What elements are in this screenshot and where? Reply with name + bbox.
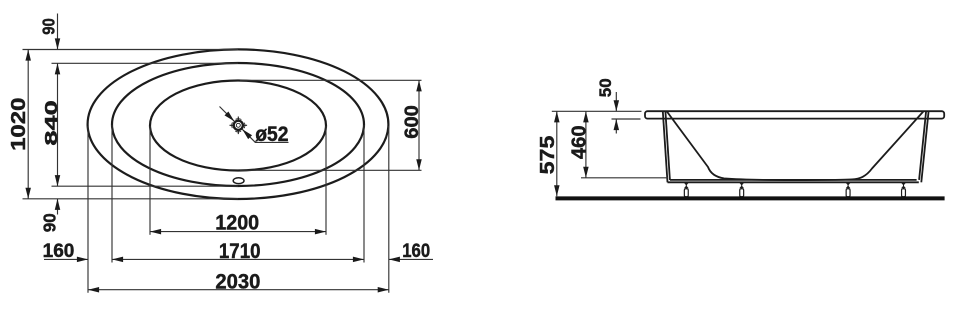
adjustable foot at x=741.7 <box>739 182 744 196</box>
left wall inner line <box>665 111 670 180</box>
dimension 160 left <box>43 241 88 262</box>
svg-text:50: 50 <box>596 78 615 97</box>
dimension 160 right <box>389 240 433 261</box>
svg-text:160: 160 <box>43 241 75 262</box>
drain symbol <box>230 117 248 135</box>
extension line outer left <box>87 126 89 293</box>
svg-text:90: 90 <box>39 18 58 35</box>
bottom plate bottom line <box>668 181 919 183</box>
extension line inner-rim bottom <box>52 185 239 187</box>
extension line bowl left <box>149 126 151 235</box>
svg-text:1200: 1200 <box>215 212 259 235</box>
dimension 600 <box>401 80 422 170</box>
svg-text:ø52: ø52 <box>255 123 288 146</box>
extension line outer right <box>388 126 390 293</box>
dimension 90 top <box>39 14 58 50</box>
right wall outer line <box>921 111 928 182</box>
extension line outer-ellipse top <box>23 49 239 51</box>
adjustable foot at x=903.5 <box>901 182 906 196</box>
svg-text:460: 460 <box>568 125 590 159</box>
right wall inner line <box>919 111 926 180</box>
extension line rim top (side view) <box>552 110 642 112</box>
dimension 460 <box>568 111 590 178</box>
svg-text:90: 90 <box>39 213 60 232</box>
bottom plate top line <box>670 179 917 181</box>
svg-text:1020: 1020 <box>7 98 30 151</box>
floor line <box>556 196 945 200</box>
outer rim ellipse (2030 x 1020) <box>88 49 389 199</box>
extension line outer-ellipse bottom <box>23 198 239 200</box>
tub rim bar <box>645 111 944 118</box>
extension line inner-rim top <box>52 62 239 64</box>
extension line rim bottom (side view) <box>612 118 641 120</box>
extension line bowl top <box>240 79 422 81</box>
dimension 1200 <box>150 212 326 235</box>
left wall outer line <box>663 111 668 182</box>
svg-text:840: 840 <box>41 100 61 145</box>
overflow hole <box>233 178 244 184</box>
extension line bowl right <box>325 126 327 235</box>
dimension 840 <box>41 63 61 186</box>
svg-text:600: 600 <box>401 105 422 139</box>
dimension 50 <box>596 78 616 133</box>
drain leader and label o52 <box>220 107 289 147</box>
dimension 1020 <box>7 50 30 199</box>
dimension 575 <box>535 111 558 196</box>
svg-text:160: 160 <box>402 240 430 261</box>
svg-text:1710: 1710 <box>219 240 261 263</box>
bowl interior profile <box>667 111 924 180</box>
adjustable foot at x=686.3 <box>684 182 689 196</box>
dimension 1710 <box>112 240 364 263</box>
inner rim ellipse (1710 x 840) <box>112 63 364 186</box>
adjustable foot at x=848.1 <box>846 182 851 196</box>
extension line inner-rim right <box>363 125 365 263</box>
extension line tub bottom (side view) <box>581 177 668 179</box>
svg-text:2030: 2030 <box>215 270 260 293</box>
extension line bowl bottom <box>240 169 422 171</box>
svg-text:575: 575 <box>535 136 558 175</box>
bowl bottom ellipse (1200 x 600) <box>150 81 326 171</box>
extension line inner-rim left <box>111 125 113 263</box>
dimension 2030 <box>88 270 389 293</box>
dimension 90 bottom <box>39 199 60 232</box>
